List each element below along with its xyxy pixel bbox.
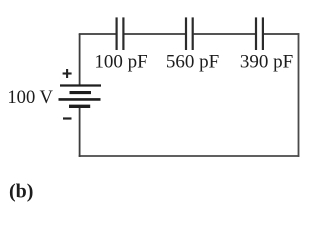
capacitor C2 560 pF: left plate (185, 17, 187, 50)
battery V1 plate 4 (short, thick) (69, 105, 90, 108)
svg-text:(b): (b) (9, 181, 33, 203)
capacitor C3 390 pF: left plate (255, 17, 257, 50)
battery V1 plate 1 (long, positive) (60, 84, 101, 86)
svg-text:560 pF: 560 pF (166, 51, 219, 72)
svg-text:100 pF: 100 pF (94, 51, 147, 72)
battery V1 plate 2 (short, thick) (70, 91, 92, 94)
wire: top segment C1 to C2 (124, 33, 185, 35)
wire: top segment from top-left corner to C1 left plate (79, 33, 116, 35)
wire: top segment C2 to C3 (194, 33, 255, 35)
wire: top segment C3 to top-right corner (264, 33, 299, 35)
capacitor C2 560 pF: right plate (192, 17, 194, 50)
wire: right side vertical (298, 33, 300, 157)
svg-text:100 V: 100 V (7, 87, 53, 108)
battery plus sign (63, 69, 72, 78)
wire: battery bottom lead (79, 105, 81, 157)
svg-text:390 pF: 390 pF (240, 51, 293, 72)
wire: battery top lead (node between V+ and C1 left) (79, 34, 81, 85)
capacitor C3 390 pF: right plate (262, 17, 264, 50)
wire: bottom horizontal (79, 155, 300, 157)
battery V1 plate 3 (long) (59, 98, 101, 101)
capacitor C1 100 pF: right plate (122, 17, 124, 50)
battery minus sign (63, 117, 72, 119)
capacitor C1 100 pF: left plate (115, 17, 117, 50)
